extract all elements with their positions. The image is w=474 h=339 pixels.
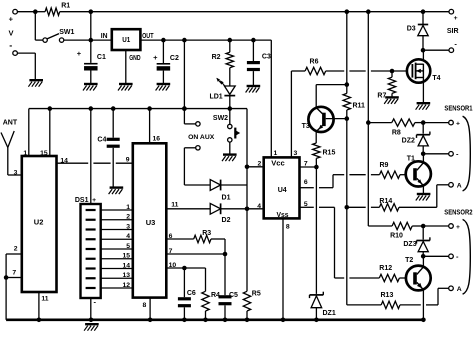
svg-text:R12: R12 [379, 265, 392, 272]
svg-text:C3: C3 [262, 54, 271, 61]
svg-text:T3: T3 [302, 123, 310, 130]
svg-text:A: A [457, 286, 462, 293]
svg-text:C1: C1 [97, 54, 106, 61]
svg-text:6: 6 [304, 179, 308, 186]
svg-text:DZ1: DZ1 [323, 310, 336, 317]
svg-text:R11: R11 [353, 102, 366, 109]
svg-text:2: 2 [258, 160, 262, 167]
svg-text:C4: C4 [97, 137, 106, 144]
svg-text:R7: R7 [377, 93, 386, 100]
svg-text:11: 11 [171, 202, 178, 209]
svg-text:+: + [456, 224, 460, 231]
svg-text:V: V [8, 29, 13, 38]
svg-text:3: 3 [14, 170, 18, 177]
svg-text:R9: R9 [380, 162, 389, 169]
svg-text:3: 3 [294, 150, 298, 157]
svg-text:+: + [77, 49, 82, 58]
svg-text:DZ3: DZ3 [403, 241, 416, 248]
svg-text:R5: R5 [252, 291, 261, 298]
svg-text:R1: R1 [61, 2, 70, 9]
svg-text:14: 14 [122, 262, 130, 269]
svg-text:SENSOR2: SENSOR2 [444, 207, 472, 216]
svg-text:T2: T2 [405, 257, 413, 264]
svg-text:R8: R8 [392, 130, 401, 137]
svg-text:SENSOR1: SENSOR1 [444, 103, 473, 112]
svg-text:SW2: SW2 [213, 115, 228, 122]
svg-text:SW1: SW1 [59, 29, 74, 36]
svg-text:15: 15 [122, 253, 130, 260]
svg-text:Vcc: Vcc [271, 161, 285, 168]
svg-text:8: 8 [143, 302, 147, 309]
svg-text:4: 4 [126, 233, 130, 240]
svg-text:9: 9 [126, 156, 130, 163]
svg-text:7: 7 [169, 248, 173, 255]
svg-text:D2: D2 [222, 217, 231, 224]
svg-text:10: 10 [169, 262, 177, 269]
svg-text:C6: C6 [187, 290, 196, 297]
svg-text:7: 7 [304, 160, 308, 167]
svg-text:T4: T4 [432, 75, 440, 82]
svg-text:OUT: OUT [142, 33, 154, 40]
svg-text:13: 13 [122, 272, 130, 279]
svg-text:3: 3 [126, 223, 130, 230]
svg-text:8: 8 [286, 223, 290, 230]
svg-text:D1: D1 [222, 194, 231, 201]
svg-text:11: 11 [41, 295, 48, 302]
svg-text:GND: GND [129, 55, 140, 62]
svg-text:R2: R2 [212, 54, 221, 61]
svg-text:ON AUX: ON AUX [188, 134, 215, 141]
svg-text:R14: R14 [379, 198, 392, 205]
svg-text:15: 15 [40, 150, 48, 157]
svg-text:R13: R13 [381, 292, 394, 299]
svg-text:+: + [9, 15, 14, 24]
svg-text:A: A [457, 183, 462, 190]
svg-text:SIR: SIR [447, 28, 459, 35]
svg-text:IN: IN [101, 33, 108, 40]
svg-text:U3: U3 [146, 218, 156, 227]
svg-text:D3: D3 [407, 25, 416, 32]
svg-text:1: 1 [274, 150, 278, 157]
svg-text:R6: R6 [310, 59, 319, 66]
svg-text:ANT: ANT [3, 120, 18, 127]
svg-text:LD1: LD1 [209, 94, 222, 101]
svg-text:+: + [92, 197, 96, 204]
svg-text:+: + [456, 121, 460, 128]
svg-text:C5: C5 [229, 292, 238, 299]
svg-text:+: + [153, 53, 158, 62]
svg-text:U4: U4 [278, 185, 288, 194]
svg-text:5: 5 [304, 201, 308, 208]
svg-text:2: 2 [14, 245, 18, 252]
svg-text:6: 6 [169, 233, 173, 240]
svg-text:1: 1 [23, 150, 27, 157]
svg-text:5: 5 [126, 243, 130, 250]
svg-text:R15: R15 [323, 150, 336, 157]
svg-text:T1: T1 [407, 155, 415, 162]
svg-text:16: 16 [153, 136, 161, 143]
svg-text:7: 7 [12, 270, 16, 277]
svg-text:DZ2: DZ2 [402, 137, 415, 144]
svg-text:Vss: Vss [277, 212, 289, 219]
svg-text:R3: R3 [202, 230, 211, 237]
svg-text:12: 12 [122, 282, 130, 289]
svg-text:2: 2 [126, 214, 130, 221]
svg-text:4: 4 [257, 203, 261, 210]
svg-text:R4: R4 [211, 292, 220, 299]
svg-text:U2: U2 [34, 218, 44, 227]
svg-text:C2: C2 [170, 55, 179, 62]
svg-text:R10: R10 [390, 233, 403, 240]
svg-text:U1: U1 [122, 35, 130, 44]
svg-text:DS1: DS1 [75, 197, 89, 204]
svg-text:-: - [9, 40, 12, 50]
svg-text:1: 1 [126, 204, 130, 211]
svg-text:14: 14 [60, 157, 68, 164]
svg-text:+: + [454, 15, 458, 22]
